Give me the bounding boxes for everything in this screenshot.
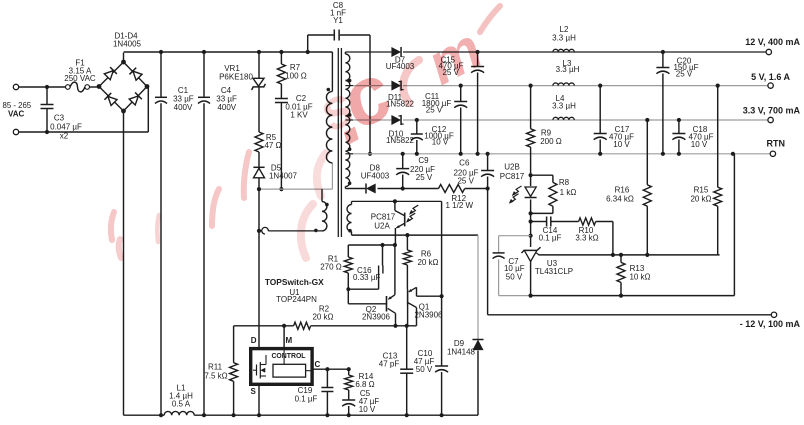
svg-text:47 Ω: 47 Ω xyxy=(264,141,281,150)
svg-text:VAC: VAC xyxy=(8,110,25,119)
resistor R1 270 ohm xyxy=(320,245,352,304)
svg-text:200 Ω: 200 Ω xyxy=(540,137,562,146)
svg-text:12 V, 400 mA: 12 V, 400 mA xyxy=(745,37,800,47)
svg-text:R8: R8 xyxy=(559,178,570,187)
optocoupler U2A PC817 phototransistor xyxy=(371,201,418,245)
svg-text:10 V: 10 V xyxy=(691,140,708,149)
node 12V output terminal xyxy=(745,37,800,55)
node RTN terminal xyxy=(767,139,786,157)
svg-text:M: M xyxy=(285,336,292,345)
wire 5V output rail xyxy=(353,84,768,88)
svg-text:0.33 µF: 0.33 µF xyxy=(353,273,380,282)
wire primary DC bus top rail xyxy=(124,50,333,54)
wire fuse to bridge xyxy=(90,86,100,88)
svg-text:3.3 V, 700 mA: 3.3 V, 700 mA xyxy=(743,106,801,116)
svg-text:3.3 kΩ: 3.3 kΩ xyxy=(575,234,598,243)
capacitor C3 0.047 uF x2 xyxy=(41,85,82,141)
resistor R8 1 kohm xyxy=(531,175,577,213)
svg-text:TL431CLP: TL431CLP xyxy=(535,267,573,276)
diode D8 UF4003 xyxy=(361,163,390,193)
svg-text:1 KV: 1 KV xyxy=(290,111,308,120)
capacitor C6 220 uF 25 V xyxy=(453,154,494,189)
capacitor C16 0.33 uF xyxy=(348,245,383,289)
inductor L1 1.4 uH 0.5 A xyxy=(164,384,194,416)
diode D7 UF4003 xyxy=(386,47,415,71)
wire AC line input top xyxy=(19,86,66,88)
fuse F1 3.15 A 250 VAC xyxy=(64,59,96,92)
wire RTN rail xyxy=(353,152,770,156)
capacitor C1 33 uF 400V xyxy=(155,52,194,415)
capacitor C7 10 uF 50 V xyxy=(493,236,531,296)
resistor R15 20 kohm xyxy=(690,86,721,255)
svg-text:C6: C6 xyxy=(459,159,470,168)
svg-text:7.5 kΩ: 7.5 kΩ xyxy=(204,372,227,381)
svg-text:CONTROL: CONTROL xyxy=(271,353,305,360)
resistor R14 6.8 ohm xyxy=(345,369,375,399)
wire S pin to bottom rail xyxy=(258,384,260,415)
resistor R11 7.5 kohm xyxy=(204,326,237,415)
svg-text:- 12 V, 100 mA: - 12 V, 100 mA xyxy=(740,319,801,329)
diode D10 1N5822 xyxy=(386,115,415,145)
inductor L4 3.3 uH xyxy=(552,94,576,120)
capacitor C20 150 uF 25 V xyxy=(656,52,698,154)
resistor R6 20 kohm xyxy=(403,235,438,289)
svg-text:25 V: 25 V xyxy=(416,173,433,182)
svg-text:6.34 kΩ: 6.34 kΩ xyxy=(606,195,634,204)
svg-text:x2: x2 xyxy=(60,132,69,141)
node 3.3V output terminal xyxy=(743,106,801,123)
svg-text:RTN: RTN xyxy=(767,139,786,149)
wire feedback node to C14 xyxy=(529,213,533,247)
svg-text:10 kΩ: 10 kΩ xyxy=(629,273,650,282)
transformer T1 primary winding xyxy=(326,52,332,163)
wire bias winding return xyxy=(352,232,479,238)
svg-text:0.1 µF: 0.1 µF xyxy=(295,395,318,404)
svg-text:1N4148: 1N4148 xyxy=(447,348,476,357)
capacitor C5 47 uF 10 V xyxy=(342,389,379,415)
svg-text:PC817: PC817 xyxy=(500,172,525,181)
svg-text:U2B: U2B xyxy=(504,163,520,172)
svg-text:2N3906: 2N3906 xyxy=(362,313,391,322)
capacitor C4 33 uF 400V xyxy=(198,52,237,415)
wire drain node xyxy=(257,163,333,191)
svg-text:1N4007: 1N4007 xyxy=(269,172,298,181)
wire emitter node A xyxy=(348,243,397,247)
capacitor C8 1 nF Y1 xyxy=(308,1,372,156)
resistor R5 47 ohm xyxy=(255,132,282,152)
svg-text:3.3 µH: 3.3 µH xyxy=(552,34,576,43)
svg-text:C3: C3 xyxy=(54,114,65,123)
capacitor C15 470 uF 25 V xyxy=(438,52,484,154)
svg-text:U2A: U2A xyxy=(374,222,390,231)
transformer T1 secondary winding xyxy=(345,52,353,189)
diode D9 1N4148 xyxy=(447,235,484,415)
capacitor C12 1000 uF 10 V xyxy=(411,120,454,154)
transformer T1 feedback winding xyxy=(347,201,352,232)
capacitor C19 0.1 uF xyxy=(295,369,334,415)
svg-text:20 kΩ: 20 kΩ xyxy=(690,195,711,204)
svg-text:R16: R16 xyxy=(615,186,630,195)
inductor L3 3.3 uH xyxy=(553,59,580,86)
svg-text:50 V: 50 V xyxy=(416,365,433,374)
IC U1 TOP244PN TOPSwitch-GX xyxy=(251,277,325,396)
svg-text:1 kΩ: 1 kΩ xyxy=(560,188,577,197)
capacitor C18 470 uF 10 V xyxy=(672,120,713,154)
svg-text:TOPSwitch-GX: TOPSwitch-GX xyxy=(265,277,324,287)
svg-text:400V: 400V xyxy=(174,103,193,112)
wire M pin xyxy=(283,326,285,349)
resistor R10 3.3 kohm xyxy=(575,218,613,255)
capacitor C17 470 uF 10 V xyxy=(594,86,634,154)
wire 3.3V output rail xyxy=(353,118,768,122)
capacitor C9 220 uF 25 V xyxy=(396,154,435,189)
svg-text:25 V: 25 V xyxy=(457,176,474,185)
svg-text:3.3 µH: 3.3 µH xyxy=(556,65,580,74)
wire 12V output rail xyxy=(345,50,766,54)
node -12V output terminal xyxy=(740,312,801,329)
svg-text:20 kΩ: 20 kΩ xyxy=(312,313,333,322)
svg-text:C9: C9 xyxy=(418,156,429,165)
svg-text:0.5 A: 0.5 A xyxy=(172,400,191,409)
optocoupler U2B PC817 LED xyxy=(500,163,537,216)
svg-text:1 1/2 W: 1 1/2 W xyxy=(446,201,474,210)
svg-text:2N3906: 2N3906 xyxy=(414,310,443,319)
wire drain column to D pin xyxy=(258,189,260,349)
wire AC neutral input bottom xyxy=(19,87,149,133)
svg-text:6.8 Ω: 6.8 Ω xyxy=(355,380,374,389)
svg-text:P6KE180: P6KE180 xyxy=(219,73,253,82)
wire M pin network xyxy=(234,324,417,328)
svg-text:0.1 µF: 0.1 µF xyxy=(539,234,562,243)
svg-text:250 VAC: 250 VAC xyxy=(64,74,96,83)
node AC input terminals 85-265 VAC xyxy=(3,84,32,134)
svg-text:400V: 400V xyxy=(217,103,236,112)
resistor R7 100 ohm xyxy=(277,52,306,84)
resistor R2 20 kohm xyxy=(294,305,334,330)
svg-text:D: D xyxy=(251,336,257,345)
svg-text:UF4003: UF4003 xyxy=(361,171,390,180)
wire -12V rail xyxy=(488,189,772,315)
svg-text:10 V: 10 V xyxy=(613,140,630,149)
capacitor C14 0.1 uF xyxy=(531,217,579,243)
wire TL431 reference xyxy=(539,253,720,257)
resistor R9 200 ohm xyxy=(527,86,562,176)
svg-text:TOP244PN: TOP244PN xyxy=(276,295,317,304)
svg-text:3.3 µH: 3.3 µH xyxy=(552,102,576,111)
svg-text:Y1: Y1 xyxy=(333,16,343,25)
node 5V output terminal xyxy=(751,72,790,88)
svg-text:100 Ω: 100 Ω xyxy=(285,72,307,81)
transformer T1 bias winding xyxy=(257,189,329,234)
svg-text:1N4005: 1N4005 xyxy=(113,40,142,49)
diode D5 1N4007 xyxy=(253,152,297,189)
svg-text:270 Ω: 270 Ω xyxy=(320,263,342,272)
svg-text:R11: R11 xyxy=(208,363,223,372)
capacitor C2 0.01 uF 1 KV xyxy=(275,84,313,191)
capacitor C10 47 uF 50 V xyxy=(414,201,448,415)
wire bias collector line xyxy=(352,199,442,203)
svg-text:10 V: 10 V xyxy=(359,405,376,414)
inductor L2 3.3 uH xyxy=(552,25,576,52)
svg-text:25 V: 25 V xyxy=(676,69,693,78)
svg-text:1N5822: 1N5822 xyxy=(386,136,415,145)
svg-text:5 V, 1.6 A: 5 V, 1.6 A xyxy=(751,72,790,82)
wire primary bottom rail xyxy=(124,413,479,417)
svg-text:47 pF: 47 pF xyxy=(379,360,400,369)
svg-text:PC817: PC817 xyxy=(371,213,396,222)
transformer T1 core xyxy=(338,48,341,237)
svg-text:25 V: 25 V xyxy=(426,106,443,115)
wire -12V rectifier branch xyxy=(345,186,489,190)
svg-text:20 kΩ: 20 kΩ xyxy=(417,258,438,267)
wire C pin xyxy=(312,367,351,371)
svg-text:S: S xyxy=(251,387,257,396)
wire TL431 anode rail xyxy=(529,154,735,298)
wire Q1 emitter to bias column xyxy=(417,294,444,298)
svg-text:10 V: 10 V xyxy=(432,138,449,147)
watermark xyxy=(111,6,500,258)
transistor Q1 2N3906 xyxy=(408,287,443,326)
wire bridge positive to top rail xyxy=(123,53,125,62)
capacitor C11 1800 uF 25 V xyxy=(422,86,467,154)
shunt regulator U3 TL431CLP xyxy=(522,247,574,295)
svg-text:50 V: 50 V xyxy=(506,272,523,281)
svg-text:R15: R15 xyxy=(694,186,709,195)
zener VR1 P6KE180 xyxy=(219,52,265,132)
resistor R12 1 ohm 1/2 W xyxy=(439,185,474,210)
resistor R13 10 kohm xyxy=(617,255,651,296)
svg-text:C: C xyxy=(315,360,321,369)
wire bridge negative down to bottom rail xyxy=(123,111,125,415)
capacitor C13 47 pF xyxy=(379,326,413,415)
transistor Q2 2N3906 xyxy=(348,245,395,326)
diode D11 1N5822 xyxy=(386,81,415,109)
resistor R16 6.34 kohm xyxy=(606,120,651,255)
bridge rectifier D1-D4 1N4005 xyxy=(97,32,150,114)
svg-text:0.047 µF: 0.047 µF xyxy=(50,123,82,132)
